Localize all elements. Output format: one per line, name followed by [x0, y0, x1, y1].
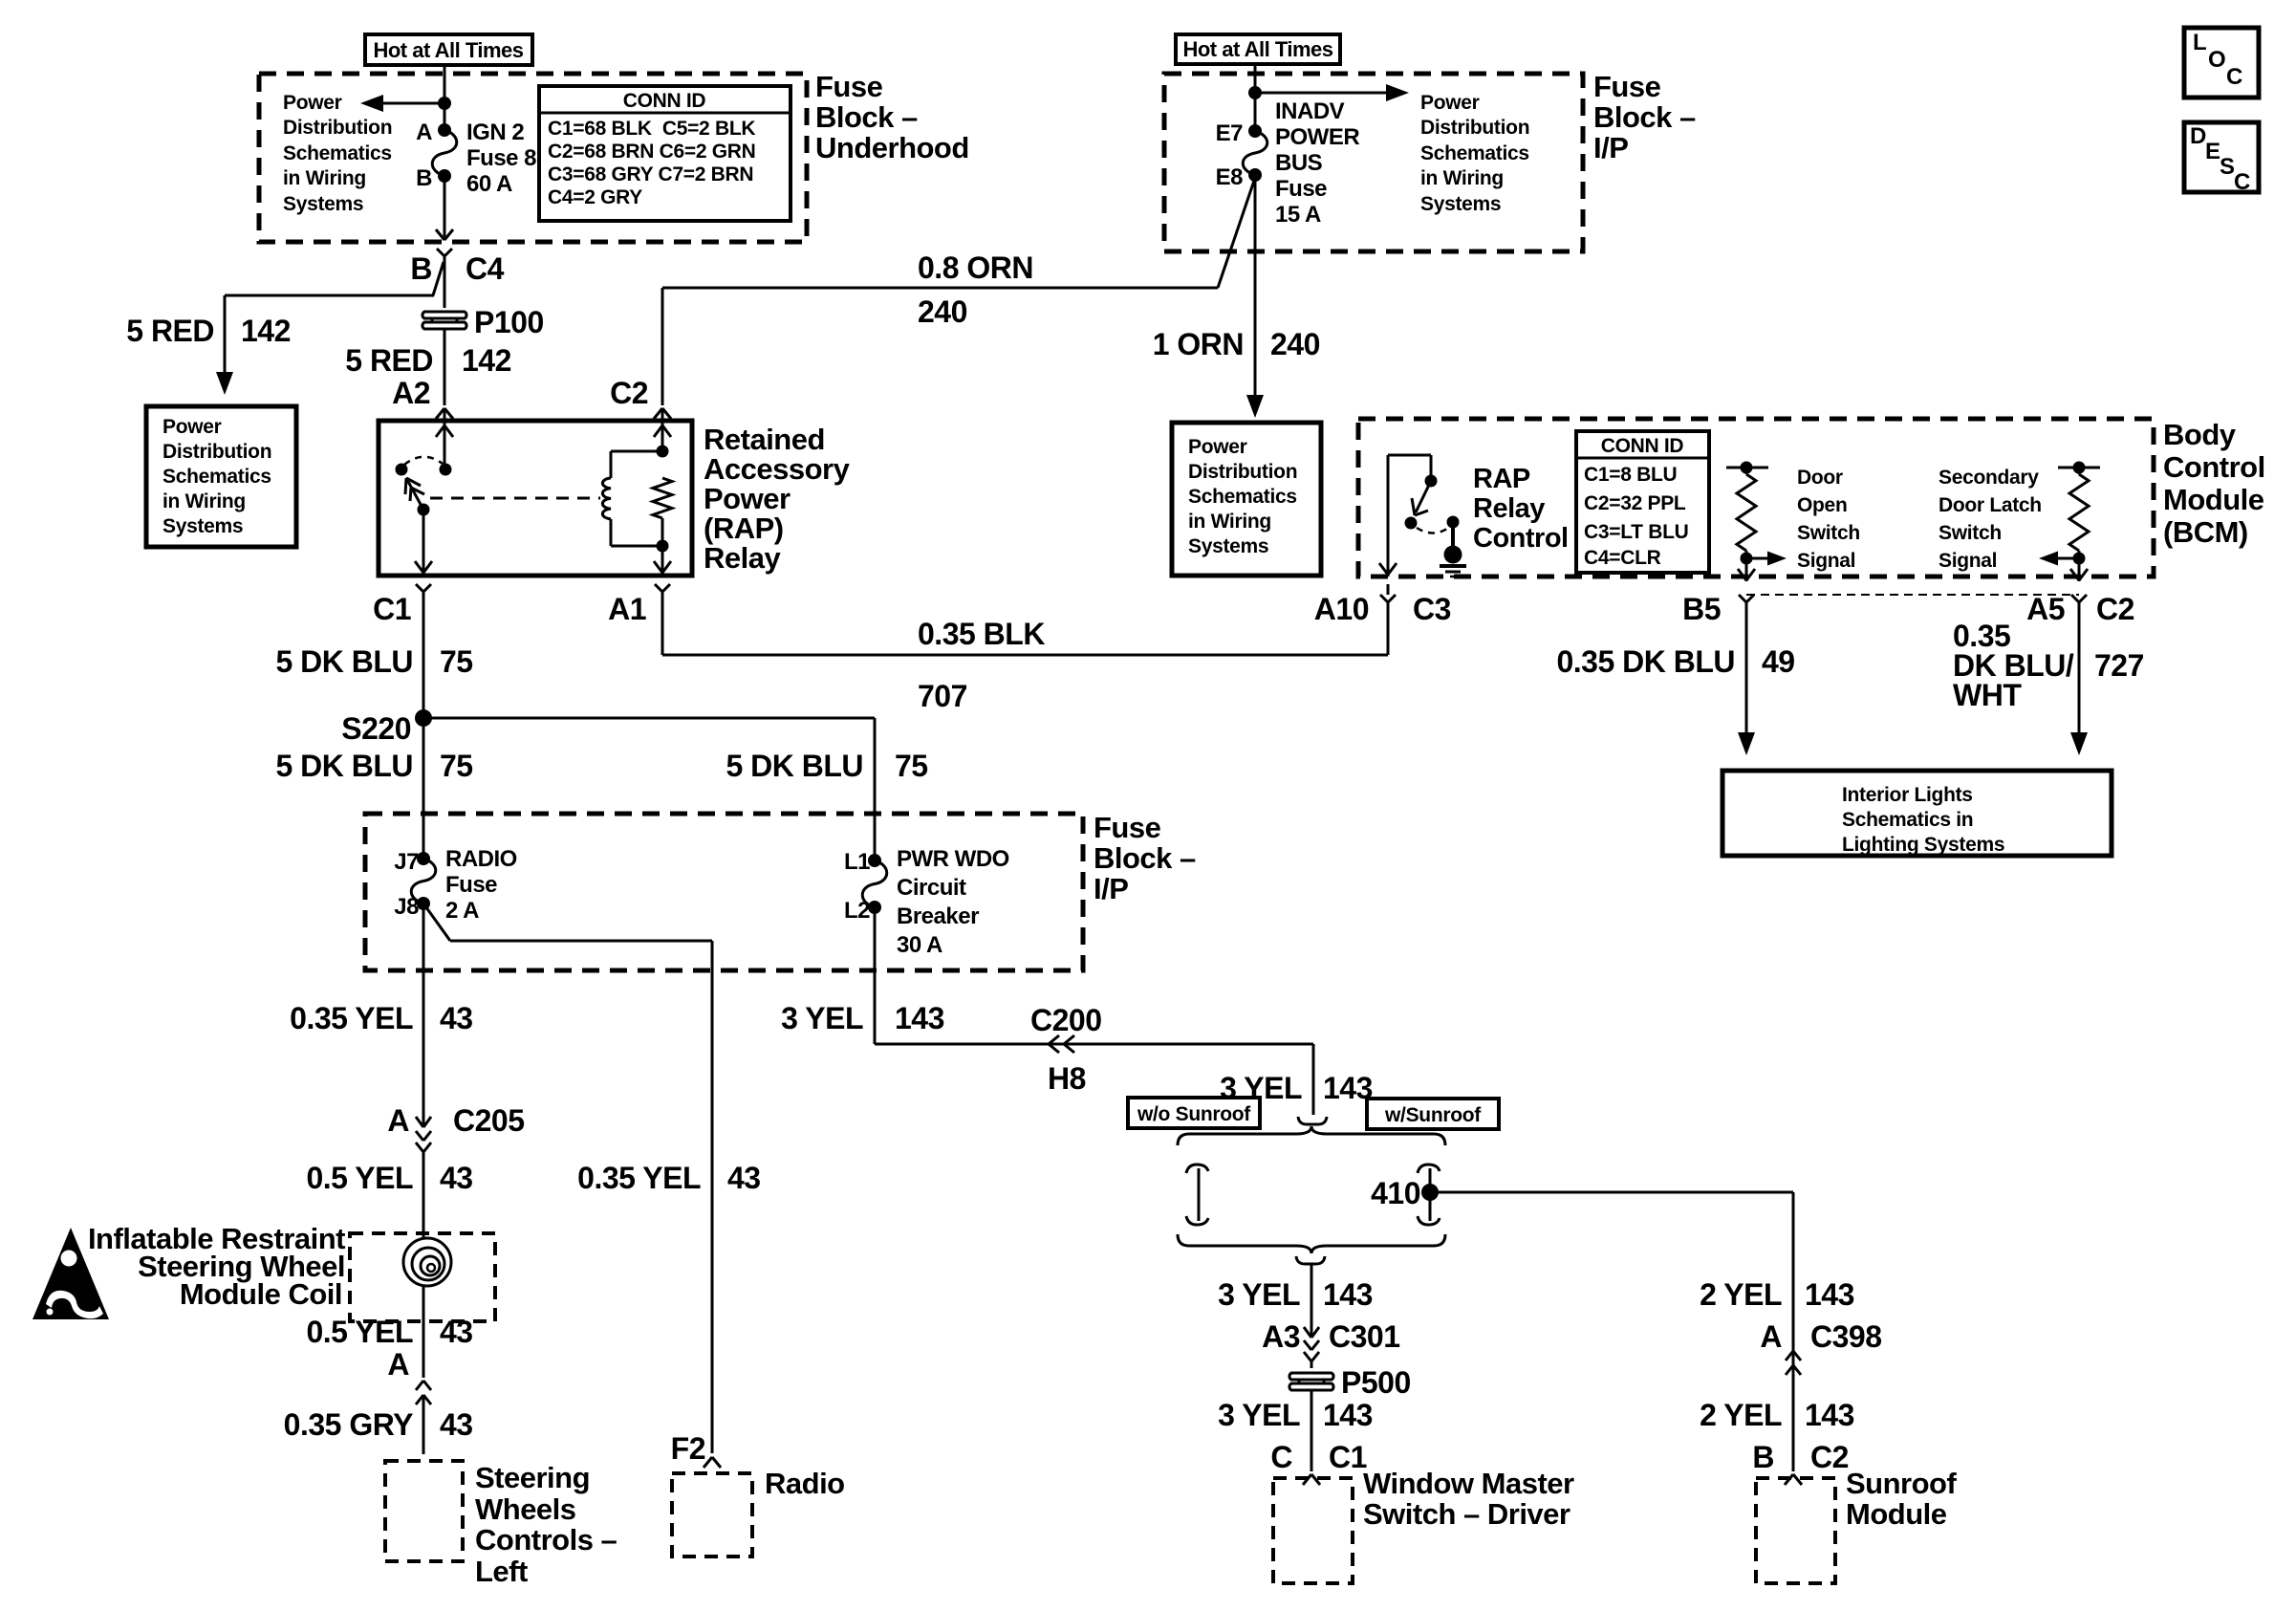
- value label PWR WDO Circuit Breaker 30 A: [897, 846, 1009, 958]
- sunroof split bottom hook: [1296, 1256, 1325, 1264]
- component label Window Master Switch - Driver: [1363, 1467, 1574, 1531]
- connector A C205 labels: [387, 1103, 524, 1138]
- svg-text:5 RED: 5 RED: [345, 343, 433, 378]
- label Secondary Door Latch Switch Signal: [1939, 467, 2042, 572]
- value label RADIO Fuse 2 A: [445, 846, 517, 924]
- svg-text:707: 707: [918, 679, 967, 713]
- BCM door open switch signal pull-up stub: [1726, 462, 1768, 474]
- svg-text:5 RED: 5 RED: [126, 314, 214, 348]
- svg-text:Fuse: Fuse: [445, 872, 497, 898]
- svg-text:Block –: Block –: [1593, 100, 1696, 134]
- component label Body Control Module (BCM): [2163, 418, 2265, 549]
- connector A10 C3 Y symbol: [1380, 584, 1396, 618]
- legend box LOC: [2184, 28, 2259, 98]
- svg-text:C205: C205: [453, 1103, 525, 1138]
- svg-text:PWR WDO: PWR WDO: [897, 846, 1009, 872]
- BCM RAP relay control driver wire (L shape) with down arrow: [1379, 455, 1431, 577]
- wire label 3 YEL 143 (below split): [1218, 1277, 1373, 1312]
- module BCM dashed enclosure: [1358, 419, 2154, 577]
- pin label F2: [671, 1431, 705, 1466]
- BCM secondary door latch wire to A5 with down arrow: [2070, 558, 2088, 581]
- pin E8 label: [1216, 164, 1244, 190]
- inflatable restraint coil dashed box: [350, 1233, 495, 1321]
- legend box DESC: [2184, 122, 2259, 195]
- svg-text:Accessory: Accessory: [704, 452, 851, 486]
- svg-text:Power: Power: [1188, 436, 1247, 458]
- relay coil windings: [602, 478, 611, 519]
- connector A5 C2 Y symbol: [2071, 595, 2087, 621]
- ground symbol (BCM RAP relay control): [1440, 546, 1466, 577]
- sunroof split top hook: [1298, 1117, 1327, 1124]
- svg-text:E8: E8: [1216, 164, 1244, 190]
- relay internal resistor: [653, 478, 672, 518]
- svg-text:Fuse: Fuse: [1275, 176, 1327, 202]
- svg-text:Fuse: Fuse: [1593, 70, 1661, 103]
- pin J8 label: [394, 894, 419, 920]
- svg-text:Circuit: Circuit: [897, 875, 966, 901]
- svg-text:in Wiring: in Wiring: [1420, 167, 1504, 189]
- relay switch alternate contact node: [396, 464, 408, 476]
- svg-text:143: 143: [895, 1001, 944, 1035]
- svg-text:Block –: Block –: [815, 100, 918, 134]
- header box Hot at All Times (left): [365, 34, 532, 65]
- svg-text:C4=CLR: C4=CLR: [1584, 547, 1661, 569]
- svg-text:Control: Control: [1473, 523, 1569, 554]
- wire label 5 RED 142 (branch): [126, 314, 291, 348]
- svg-text:Systems: Systems: [1188, 535, 1268, 557]
- svg-text:143: 143: [1323, 1398, 1373, 1432]
- wire label 5 DK BLU 75 (below S220): [275, 749, 472, 783]
- svg-text:Systems: Systems: [283, 193, 363, 215]
- connector A C398 labels: [1760, 1319, 1881, 1354]
- svg-text:A: A: [1760, 1319, 1782, 1354]
- wire label 240: [918, 294, 967, 329]
- connector table CONN ID (BCM): [1576, 431, 1709, 573]
- svg-text:Underhood: Underhood: [815, 131, 969, 164]
- connector C4 Y symbol: [437, 249, 452, 308]
- svg-text:Fuse: Fuse: [815, 70, 883, 103]
- svg-text:2 YEL: 2 YEL: [1700, 1398, 1782, 1432]
- wire fuse B to connector C4: [436, 176, 453, 240]
- connector B5 Y symbol: [1739, 595, 1754, 621]
- svg-text:Distribution: Distribution: [283, 117, 392, 139]
- module Steering Wheels Controls - Left dashed box: [385, 1461, 463, 1561]
- svg-text:B: B: [1752, 1440, 1774, 1474]
- svg-text:Relay: Relay: [1473, 493, 1545, 524]
- wire 5 RED down arrow into power distribution note box: [216, 295, 233, 395]
- svg-text:Door: Door: [1797, 467, 1843, 489]
- connector C2 chevron at sunroof module: [1785, 1474, 1802, 1485]
- svg-text:Sunroof: Sunroof: [1846, 1467, 1957, 1500]
- svg-text:Switch – Driver: Switch – Driver: [1363, 1497, 1570, 1531]
- svg-text:3 YEL: 3 YEL: [1218, 1277, 1300, 1312]
- svg-text:CONN ID: CONN ID: [1601, 435, 1684, 457]
- value label P500: [1341, 1365, 1411, 1400]
- svg-text:Schematics: Schematics: [283, 142, 392, 164]
- relay coil control dashed link line: [430, 497, 600, 500]
- wire 0.35 YEL circuit 43 from J7 side down to C205: [422, 903, 425, 1119]
- value label IGN 2 Fuse 8 60 A: [466, 120, 536, 197]
- option split bottom brace: [1178, 1234, 1445, 1253]
- svg-text:P500: P500: [1341, 1365, 1411, 1400]
- BCM secondary door latch bottom node with left arrow: [2039, 552, 2086, 566]
- wire label 0.35 BLK: [918, 617, 1045, 651]
- connector A chevrons (steering wheel): [387, 1347, 431, 1454]
- svg-text:240: 240: [1270, 327, 1320, 361]
- pin label H8: [1048, 1061, 1086, 1096]
- wire 5 DK BLU from S220 right to circuit breaker L1: [423, 718, 875, 860]
- svg-text:BUS: BUS: [1275, 150, 1323, 176]
- svg-text:75: 75: [895, 749, 928, 783]
- fuse block underhood dashed enclosure: [259, 74, 807, 242]
- svg-text:Distribution: Distribution: [1188, 461, 1297, 483]
- svg-text:Relay: Relay: [704, 541, 781, 575]
- BCM lower connector face thin dashed line: [1746, 594, 2079, 596]
- relay pin C2 internal wire with up arrow: [654, 421, 671, 451]
- wire 0.5 YEL 43 below coil: [422, 1287, 425, 1378]
- wire label 0.35 DK BLU/WHT 727: [1953, 619, 2144, 712]
- node junction above fuse IGN 2: [438, 97, 451, 110]
- pin A label (IGN 2 fuse): [416, 120, 432, 145]
- svg-text:C1: C1: [373, 592, 411, 626]
- node label S220: [341, 711, 411, 746]
- pin L1 label: [844, 849, 870, 875]
- module Radio dashed box: [672, 1473, 752, 1557]
- svg-text:RADIO: RADIO: [445, 846, 517, 872]
- circuit breaker PWR WDO 30A element: [862, 854, 887, 914]
- svg-text:0.35 YEL: 0.35 YEL: [290, 1001, 413, 1035]
- svg-text:Power: Power: [283, 92, 342, 114]
- svg-text:C2: C2: [2096, 592, 2134, 626]
- svg-text:w/o Sunroof: w/o Sunroof: [1137, 1103, 1251, 1125]
- svg-text:143: 143: [1805, 1277, 1854, 1312]
- wire 0.35 YEL circuit 43 from J8 to radio (slant, horizontal, down): [423, 903, 712, 1453]
- svg-text:Fuse 8: Fuse 8: [466, 145, 536, 171]
- svg-text:75: 75: [440, 644, 473, 679]
- svg-text:C1=8 BLU: C1=8 BLU: [1584, 464, 1677, 486]
- connector A1 Y symbol below relay: [655, 584, 670, 612]
- svg-text:75: 75: [440, 749, 473, 783]
- svg-text:Switch: Switch: [1939, 522, 2002, 544]
- wire arrow to power distribution note (right): [1255, 84, 1409, 101]
- option split top brace: [1178, 1126, 1445, 1145]
- svg-text:2 YEL: 2 YEL: [1700, 1277, 1782, 1312]
- wire label 5 DK BLU 75 (above S220): [275, 644, 472, 679]
- connector C200 chevrons on wire: [1030, 1003, 1102, 1053]
- svg-text:Signal: Signal: [1939, 550, 1997, 572]
- label Door Open Switch Signal: [1797, 467, 1860, 572]
- wire label 0.35 GRY 43: [284, 1407, 473, 1442]
- note box Interior Lights Schematics in Lighting Systems: [1722, 771, 2112, 856]
- connector A2 chevron into relay: [436, 408, 453, 421]
- pin E7 label: [1216, 120, 1244, 146]
- inline splice P100 grommet: [422, 312, 466, 329]
- svg-text:0.35 BLK: 0.35 BLK: [918, 617, 1045, 651]
- svg-text:142: 142: [241, 314, 291, 348]
- wire label 3 YEL 143 (above split): [1220, 1071, 1373, 1105]
- relay switch stationary contact node: [440, 464, 452, 476]
- wire label 3 YEL 143 (at L2): [781, 1001, 944, 1035]
- node 410 splice label and dot: [1371, 1176, 1439, 1210]
- svg-text:43: 43: [440, 1315, 473, 1349]
- svg-text:Interior Lights: Interior Lights: [1842, 784, 1973, 806]
- svg-text:Module: Module: [2163, 483, 2264, 516]
- connector C2 chevron into relay: [654, 408, 671, 421]
- svg-text:0.35 GRY: 0.35 GRY: [284, 1407, 413, 1442]
- svg-text:Breaker: Breaker: [897, 903, 979, 929]
- component label Retained Accessory Power (RAP) Relay: [704, 423, 851, 575]
- svg-text:30 A: 30 A: [897, 932, 942, 958]
- pin J7 label: [394, 849, 419, 875]
- svg-text:A2: A2: [392, 376, 430, 410]
- svg-text:A: A: [387, 1103, 409, 1138]
- component label Fuse Block - I/P (top): [1593, 70, 1696, 164]
- note Power Distribution Schematics in Wiring Systems (fuse block I/P): [1420, 92, 1529, 215]
- svg-text:Distribution: Distribution: [1420, 117, 1529, 139]
- svg-text:43: 43: [440, 1161, 473, 1195]
- component label Fuse Block - I/P (lower): [1094, 811, 1196, 905]
- wire label 707: [918, 679, 967, 713]
- fuse block I/P dashed enclosure (top): [1164, 74, 1583, 251]
- svg-text:S220: S220: [341, 711, 411, 746]
- BCM driver stationary contact node: [1425, 475, 1438, 488]
- svg-text:Window Master: Window Master: [1363, 1467, 1574, 1500]
- relay switch output wire to C1 with down arrow: [415, 510, 432, 574]
- relay coil branch top wire: [611, 446, 669, 479]
- svg-text:Fuse: Fuse: [1094, 811, 1161, 844]
- wire 3 YEL 143 from split to C301: [1310, 1264, 1313, 1326]
- value label INADV POWER BUS Fuse 15 A: [1275, 98, 1359, 228]
- svg-text:Secondary: Secondary: [1939, 467, 2039, 489]
- svg-text:in Wiring: in Wiring: [1188, 511, 1271, 533]
- BCM driver switch pivot node: [1405, 517, 1418, 530]
- fuse block I/P dashed enclosure (lower): [365, 814, 1083, 970]
- svg-text:C301: C301: [1329, 1319, 1400, 1354]
- svg-text:C: C: [2234, 169, 2250, 195]
- connector C C1 labels: [1270, 1440, 1367, 1474]
- module Sunroof Module dashed box: [1756, 1478, 1835, 1583]
- BCM driver switch arm with arrowhead: [1412, 481, 1431, 515]
- wire 0.8 ORN circuit 240 from relay C2 up and right to INADV fuse: [662, 178, 1255, 405]
- svg-text:(BCM): (BCM): [2163, 515, 2248, 549]
- svg-text:43: 43: [440, 1407, 473, 1442]
- option branch w/ sunroof I-bracket: [1418, 1165, 1440, 1225]
- pin labels A10 C3: [1314, 592, 1451, 626]
- svg-text:240: 240: [918, 294, 967, 329]
- svg-text:C2: C2: [1810, 1440, 1849, 1474]
- svg-text:L: L: [2193, 30, 2206, 55]
- svg-text:410: 410: [1371, 1176, 1420, 1210]
- svg-text:RAP: RAP: [1473, 464, 1530, 494]
- svg-text:Systems: Systems: [162, 515, 243, 537]
- svg-text:C200: C200: [1030, 1003, 1102, 1037]
- component label Sunroof Module: [1846, 1467, 1957, 1531]
- BCM door open wire to B5 with down arrow: [1738, 558, 1755, 581]
- wire label 2 YEL 143 (lower sunroof): [1700, 1398, 1854, 1432]
- svg-text:Power: Power: [1420, 92, 1480, 114]
- svg-text:Distribution: Distribution: [162, 441, 271, 463]
- svg-text:0.35 YEL: 0.35 YEL: [577, 1161, 701, 1195]
- option label box w/o Sunroof: [1128, 1098, 1260, 1128]
- wire 0.5 YEL 43 from C205 to steering wheel coil: [422, 1165, 425, 1237]
- connector C1 chevron at window master switch: [1303, 1474, 1320, 1485]
- svg-text:A10: A10: [1314, 592, 1369, 626]
- BCM door open bottom node with right arrow: [1741, 552, 1787, 566]
- svg-text:S: S: [2220, 154, 2235, 180]
- svg-text:15 A: 15 A: [1275, 202, 1321, 228]
- connector B C4 labels: [410, 251, 504, 286]
- note box Power Distribution Schematics in Wiring Systems (middle): [1172, 423, 1321, 576]
- svg-text:Open: Open: [1797, 494, 1847, 516]
- svg-text:143: 143: [1805, 1398, 1854, 1432]
- relay internal wire resistor to A1 with down arrow: [654, 518, 671, 574]
- svg-text:J8: J8: [394, 894, 419, 920]
- svg-text:B: B: [416, 165, 432, 191]
- svg-text:5 DK BLU: 5 DK BLU: [275, 749, 413, 783]
- svg-text:in Wiring: in Wiring: [162, 490, 246, 512]
- header box Hot at All Times (right): [1176, 34, 1340, 64]
- svg-text:Schematics: Schematics: [1188, 486, 1297, 508]
- svg-text:0.35 DK BLU: 0.35 DK BLU: [1556, 644, 1735, 679]
- svg-text:CONN ID: CONN ID: [623, 90, 706, 112]
- wire 0.35 DK BLU circuit 49 from B5 with arrow: [1738, 621, 1755, 755]
- svg-text:H8: H8: [1048, 1061, 1086, 1096]
- value label P100: [474, 305, 544, 339]
- svg-text:Signal: Signal: [1797, 550, 1855, 572]
- svg-text:INADV: INADV: [1275, 98, 1345, 124]
- pin labels A5 C2: [2026, 592, 2134, 626]
- svg-text:Door Latch: Door Latch: [1939, 494, 2042, 516]
- svg-text:A5: A5: [2026, 592, 2065, 626]
- svg-text:49: 49: [1762, 644, 1795, 679]
- svg-text:Block –: Block –: [1094, 841, 1196, 875]
- module Window Master Switch - Driver dashed box: [1273, 1478, 1353, 1583]
- svg-text:A3: A3: [1262, 1319, 1300, 1354]
- svg-text:Schematics in: Schematics in: [1842, 809, 1973, 831]
- fuse IGN 2 Fuse 8 60A element: [432, 123, 457, 183]
- connector A3 C301 labels: [1262, 1319, 1399, 1354]
- svg-text:0.5 YEL: 0.5 YEL: [306, 1315, 413, 1349]
- svg-text:3 YEL: 3 YEL: [781, 1001, 863, 1035]
- svg-text:Schematics: Schematics: [1420, 142, 1529, 164]
- svg-text:Power: Power: [704, 482, 791, 515]
- splice S220 node: [415, 709, 432, 727]
- svg-text:143: 143: [1323, 1277, 1373, 1312]
- connector C301 arrow and chevrons: [1304, 1326, 1319, 1368]
- BCM secondary door latch pull-up stub: [2058, 462, 2100, 474]
- wire label 5 DK BLU 75 (right of S220): [726, 749, 927, 783]
- svg-text:L1: L1: [844, 849, 870, 875]
- clockspring coil symbol (concentric): [403, 1238, 451, 1286]
- svg-text:60 A: 60 A: [466, 171, 512, 197]
- svg-text:C2=68 BRN C6=2 GRN: C2=68 BRN C6=2 GRN: [548, 141, 756, 163]
- wire arrow to power distribution note (left): [360, 95, 444, 112]
- connector C398 chevrons up: [1786, 1351, 1801, 1375]
- fuse INADV POWER BUS 15A element: [1243, 124, 1267, 182]
- svg-text:B5: B5: [1682, 592, 1721, 626]
- resistor secondary door latch switch signal: [2069, 468, 2089, 558]
- wire from 410 splice right to sunroof module drop: [1430, 1192, 1793, 1471]
- wire label 0.5 YEL 43 (above coil): [306, 1161, 472, 1195]
- pin label B5: [1682, 592, 1721, 626]
- pin label A2: [392, 376, 430, 410]
- wire 3 YEL 143 from P500 to window master switch: [1310, 1391, 1313, 1471]
- label RAP Relay Control: [1473, 464, 1569, 554]
- svg-text:3 YEL: 3 YEL: [1218, 1398, 1300, 1432]
- relay switch common wire from A2 with up arrow: [436, 421, 453, 469]
- wire label 0.8 ORN: [918, 250, 1033, 285]
- svg-text:I/P: I/P: [1593, 131, 1628, 164]
- wire label 5 RED 142 (below P100): [345, 343, 511, 378]
- svg-text:Hot at All Times: Hot at All Times: [1182, 37, 1332, 61]
- connector table CONN ID (underhood): [539, 86, 791, 221]
- svg-text:E7: E7: [1216, 120, 1244, 146]
- wire label 0.35 DK BLU 49: [1556, 644, 1794, 679]
- svg-text:A: A: [387, 1347, 409, 1382]
- resistor door open switch signal: [1737, 468, 1756, 558]
- svg-text:A: A: [416, 120, 432, 145]
- svg-text:43: 43: [727, 1161, 761, 1195]
- svg-text:O: O: [2208, 47, 2225, 73]
- svg-text:I/P: I/P: [1094, 872, 1128, 905]
- svg-text:E: E: [2205, 139, 2220, 164]
- svg-text:F2: F2: [671, 1431, 705, 1466]
- svg-text:(RAP): (RAP): [704, 512, 784, 545]
- svg-text:Hot at All Times: Hot at All Times: [373, 38, 523, 62]
- svg-text:5 DK BLU: 5 DK BLU: [275, 644, 413, 679]
- relay switch movable arm with arrowhead: [405, 478, 424, 510]
- fuse RADIO 2A element: [411, 852, 436, 910]
- svg-text:C3=68 GRY C7=2 BRN: C3=68 GRY C7=2 BRN: [548, 163, 753, 185]
- svg-text:C3=LT BLU: C3=LT BLU: [1584, 521, 1689, 543]
- relay coil branch bottom wire: [611, 519, 669, 553]
- svg-text:0.8 ORN: 0.8 ORN: [918, 250, 1033, 285]
- svg-text:Schematics: Schematics: [162, 466, 271, 488]
- svg-text:POWER: POWER: [1275, 124, 1359, 150]
- inline splice P500 grommet: [1289, 1373, 1333, 1390]
- BCM driver plunger contact node: [1447, 516, 1460, 529]
- BCM driver dashed travel arc: [1417, 526, 1451, 533]
- svg-text:in Wiring: in Wiring: [283, 167, 366, 189]
- svg-text:C4: C4: [466, 251, 505, 286]
- wire 3 YEL circuit 143 from L2 through C200: [875, 907, 1313, 1115]
- wire from Hot at All Times into I/P fuse block: [1254, 64, 1257, 131]
- svg-text:Switch: Switch: [1797, 522, 1860, 544]
- svg-text:WHT: WHT: [1953, 678, 2022, 712]
- connector F2 chevron at radio: [704, 1457, 721, 1468]
- wire 0.35 DK BLU/WHT circuit 727 from A5 C2 with arrow: [2070, 621, 2088, 755]
- svg-text:Wheels: Wheels: [475, 1492, 576, 1526]
- svg-text:D: D: [2190, 123, 2206, 149]
- svg-text:Retained: Retained: [704, 423, 825, 456]
- pin label A1: [608, 592, 646, 626]
- wire 5 DK BLU circuit 75 from relay C1 to splice S220: [422, 612, 425, 718]
- svg-text:Body: Body: [2163, 418, 2237, 451]
- note box Power Distribution Schematics in Wiring Systems (left): [146, 406, 296, 547]
- pin label C2: [610, 376, 648, 410]
- relay switch dashed travel arc: [404, 457, 443, 465]
- wire 1 ORN 240 from fuse E8 down to note box with arrow: [1246, 175, 1264, 418]
- svg-text:C1=68 BLK C5=2 BLK: C1=68 BLK C5=2 BLK: [548, 118, 755, 140]
- svg-text:w/Sunroof: w/Sunroof: [1384, 1104, 1482, 1126]
- relay RAP box outline: [379, 421, 692, 576]
- svg-text:IGN 2: IGN 2: [466, 120, 524, 145]
- wire P100 to relay pin A2: [444, 330, 446, 405]
- wire label 0.35 YEL 43 (left): [290, 1001, 472, 1035]
- wire label 3 YEL 143 (above window switch): [1218, 1398, 1373, 1432]
- svg-text:P100: P100: [474, 305, 544, 339]
- connector B C2 labels: [1752, 1440, 1849, 1474]
